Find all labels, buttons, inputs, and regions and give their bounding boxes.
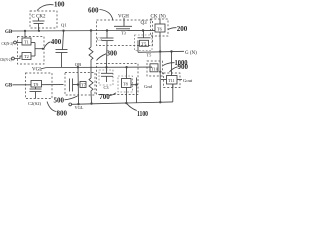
node junction x78.5 bottom <box>77 103 79 105</box>
wire column x63.5 upper <box>63 31 64 50</box>
leader 300 <box>97 54 107 61</box>
svg-text:G (N): G (N) <box>185 51 197 56</box>
node junction x126.6 y67.2 <box>125 66 127 68</box>
transistor T5 <box>138 31 151 53</box>
svg-text:T3: T3 <box>121 31 126 36</box>
wire bottom bus <box>72 102 173 104</box>
svg-text:Q3: Q3 <box>141 21 148 26</box>
leader 900 <box>170 67 178 72</box>
svg-text:QB: QB <box>75 62 81 67</box>
box T8 sub <box>118 76 133 92</box>
svg-text:CK(N-2): CK(N-2) <box>2 41 14 46</box>
wire column x78 <box>77 67 80 104</box>
svg-text:600: 600 <box>88 7 99 15</box>
svg-text:C CK2: C CK2 <box>32 15 46 20</box>
box T5 sub <box>135 35 153 51</box>
node junction x160.3 bottom <box>159 101 161 103</box>
svg-text:Gout: Gout <box>183 78 193 83</box>
svg-text:VGL: VGL <box>32 68 42 73</box>
svg-text:T5: T5 <box>142 41 147 46</box>
transistor T3 <box>114 18 132 29</box>
box 500 <box>26 73 53 99</box>
svg-text:Q1: Q1 <box>61 23 67 28</box>
box 600 <box>97 20 153 46</box>
svg-text:T10: T10 <box>151 66 158 71</box>
terminal CK(N-2) b <box>12 57 15 60</box>
transistor T2 <box>14 53 35 60</box>
node junction x160.3 y71.8 <box>159 71 161 73</box>
svg-text:T6: T6 <box>157 27 163 32</box>
svg-text:200: 200 <box>177 25 188 33</box>
svg-text:100: 100 <box>54 1 65 9</box>
transistor T7 blob <box>80 82 86 88</box>
node junction x91.5 bottom <box>90 102 92 104</box>
svg-text:1100: 1100 <box>137 110 148 118</box>
node Q1 junction <box>62 30 64 32</box>
capacitor C_CK2 <box>33 18 45 31</box>
capacitor C5 mid <box>56 50 68 68</box>
svg-text:C5: C5 <box>97 36 102 41</box>
svg-text:T11: T11 <box>168 78 175 83</box>
capacitor C2 <box>30 87 42 99</box>
svg-text:VGH: VGH <box>118 15 129 20</box>
node junction x107 <box>106 29 108 31</box>
resistor R1 <box>89 31 93 79</box>
svg-text:700: 700 <box>99 93 110 101</box>
capacitor C1 inline <box>70 79 79 92</box>
svg-text:C2(S2): C2(S2) <box>28 101 42 106</box>
svg-text:300: 300 <box>107 50 118 58</box>
capacitor C4 <box>102 31 114 68</box>
leader 500 <box>65 96 78 100</box>
transistor T11 <box>161 52 182 88</box>
box 700 <box>97 64 139 95</box>
svg-text:GB: GB <box>5 84 13 89</box>
leader 400 <box>44 42 51 49</box>
box 1000 <box>147 61 163 76</box>
svg-text:1000: 1000 <box>175 59 188 67</box>
leader 1000 <box>163 63 175 66</box>
svg-text:T9: T9 <box>34 82 39 87</box>
wire bottom right corner up <box>172 84 174 102</box>
wire VGL left stub <box>41 68 47 69</box>
svg-text:400: 400 <box>51 38 62 46</box>
terminal CK(N-2) a <box>14 41 17 44</box>
svg-text:T2: T2 <box>24 54 29 59</box>
svg-text:800: 800 <box>57 109 68 117</box>
svg-text:GB: GB <box>5 30 13 35</box>
node junction x136.5 y84.7 <box>135 84 137 86</box>
box 900 <box>164 73 181 88</box>
svg-text:T8: T8 <box>123 82 128 87</box>
box 200 <box>151 19 169 36</box>
transistor T9 <box>13 81 64 88</box>
node junction x126.4 bottom <box>125 102 127 104</box>
box mid lower <box>65 73 95 96</box>
node junction x91 <box>90 29 92 31</box>
wire G(N) <box>138 51 184 52</box>
wire x136.5 down <box>136 85 138 103</box>
svg-text:T7: T7 <box>81 83 87 88</box>
box 100 <box>30 11 57 28</box>
leader 600 <box>100 10 114 21</box>
leader 800 <box>47 102 56 112</box>
svg-text:VGL: VGL <box>75 105 84 110</box>
node Q3 junction <box>142 29 144 31</box>
svg-text:500: 500 <box>54 96 65 104</box>
leader 700 <box>110 93 117 96</box>
svg-text:T5: T5 <box>147 53 152 58</box>
node junction x25 <box>24 30 26 32</box>
leader 100 <box>37 5 54 11</box>
leader 1100 <box>127 104 137 111</box>
transistor T8 <box>122 67 137 103</box>
node junction G(N) x160 <box>159 50 161 52</box>
terminal VGL bottom <box>69 103 72 106</box>
transistor T6 <box>155 19 165 103</box>
node junction G(N) x171.5 <box>170 50 172 52</box>
svg-text:T1: T1 <box>24 40 29 45</box>
wire x25 down <box>24 31 26 38</box>
wire main bus y30.6 <box>12 29 156 32</box>
svg-text:CK (N): CK (N) <box>151 15 166 20</box>
transistor T1 <box>17 38 36 45</box>
capacitor C3 <box>101 67 113 82</box>
wire VGL bus y67.3 <box>47 66 153 68</box>
box C3 sub <box>99 70 113 85</box>
svg-text:CK(N-2): CK(N-2) <box>0 57 12 62</box>
node QB junction <box>77 66 79 68</box>
box 400 <box>18 37 45 65</box>
node junction x78 y84.6 <box>77 83 79 85</box>
transistor T10 <box>150 64 158 72</box>
node junction x43 <box>38 30 40 32</box>
resistor R2 <box>89 78 93 104</box>
wire T1T2 output join <box>35 43 43 57</box>
node junction x106.5 y67.3 <box>105 66 107 68</box>
wire x136.5 up <box>136 78 138 85</box>
leader 200 <box>168 28 177 30</box>
svg-text:Gnd: Gnd <box>144 84 153 89</box>
node output dot <box>42 48 44 50</box>
svg-text:C3: C3 <box>104 85 109 90</box>
